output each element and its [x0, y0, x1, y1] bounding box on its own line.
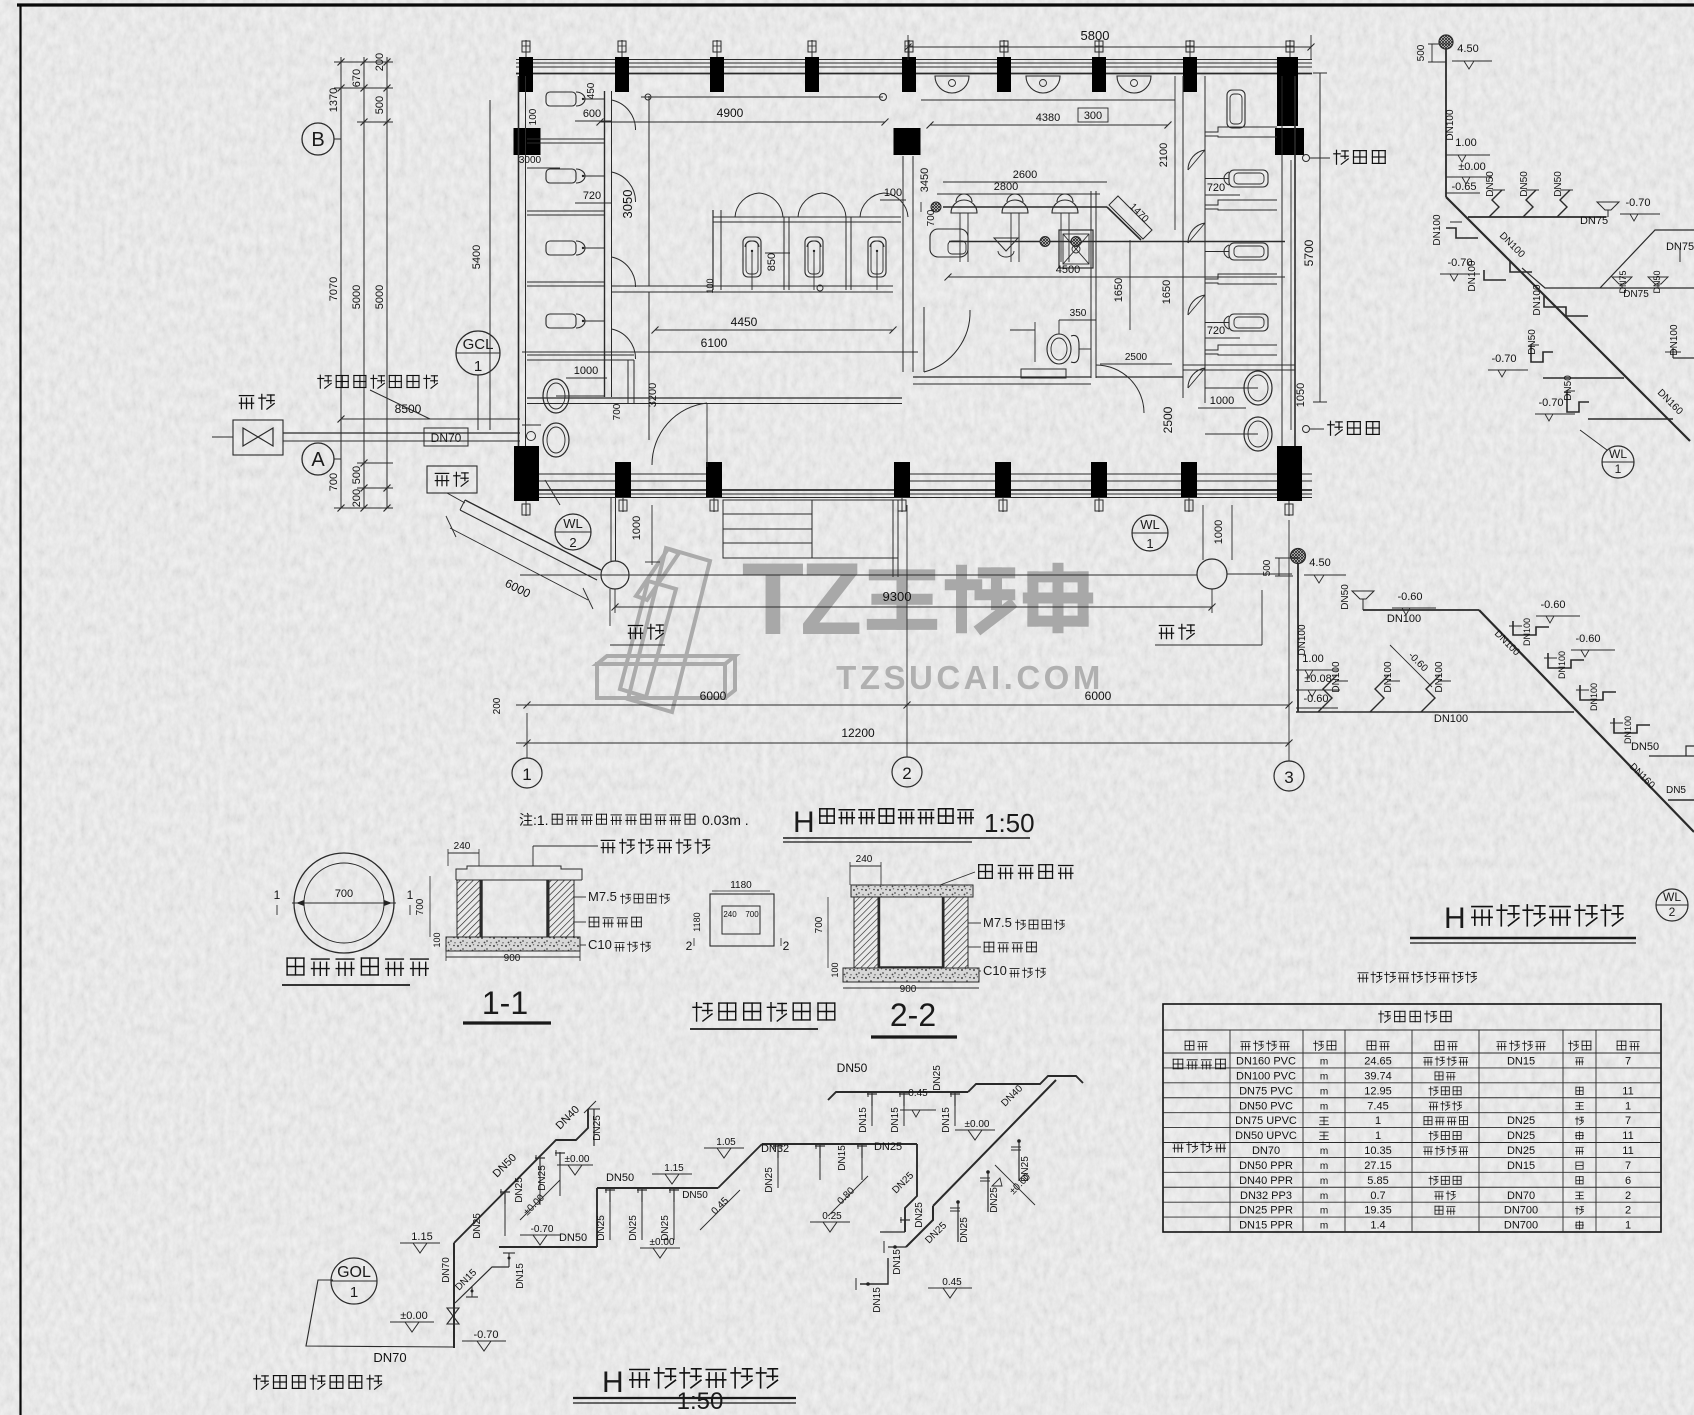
- WL1 stack: [1445, 49, 1447, 197]
- svg-text:1.4: 1.4: [1370, 1220, 1385, 1232]
- table header cells: [1185, 1041, 1194, 1050]
- left dimension lines: [340, 57, 342, 508]
- mid room bottom wall right half: [913, 376, 1091, 378]
- svg-text:DN15: DN15: [890, 1107, 901, 1133]
- lower DN15 steps: [906, 1206, 933, 1247]
- svg-text:m: m: [1320, 1191, 1328, 1202]
- WL2 vent cap: [1291, 549, 1306, 564]
- svg-text:6000: 6000: [1085, 689, 1112, 703]
- svg-text:DN100: DN100: [1557, 651, 1567, 679]
- svg-text:7: 7: [1625, 1056, 1631, 1068]
- svg-text:19.35: 19.35: [1364, 1205, 1392, 1217]
- WL1 DN50 step lower: [1531, 345, 1553, 362]
- svg-text:2: 2: [1669, 905, 1676, 919]
- svg-text:-0.70: -0.70: [1538, 397, 1563, 409]
- WL2 floor drain DN50: [1352, 591, 1374, 599]
- svg-text:4500: 4500: [1056, 264, 1080, 276]
- bottom corner columns: [514, 446, 539, 501]
- right room door arc to corridor: [1096, 365, 1144, 413]
- grid circle A: [302, 443, 334, 475]
- section 1-1 leader labels: [532, 846, 534, 866]
- svg-text:DN50: DN50: [837, 1061, 868, 1075]
- corner columns row B: [514, 128, 541, 155]
- svg-text:-0.60: -0.60: [1575, 633, 1600, 645]
- svg-text:DN15: DN15: [941, 1107, 952, 1133]
- svg-text:-0.70: -0.70: [473, 1329, 498, 1341]
- svg-text:3: 3: [1284, 768, 1293, 787]
- plan left exterior wall: [518, 76, 520, 497]
- svg-text:1: 1: [1375, 1115, 1381, 1127]
- svg-text:-0.60: -0.60: [1397, 591, 1422, 603]
- svg-text:DN32 PP3: DN32 PP3: [1240, 1190, 1292, 1202]
- svg-text:A: A: [311, 449, 325, 471]
- svg-text:DN15: DN15: [872, 1287, 883, 1313]
- WL2 ground line and traps: [1296, 711, 1574, 713]
- svg-text:1:50: 1:50: [677, 1388, 724, 1415]
- svg-text:DN50: DN50: [1519, 171, 1530, 197]
- grid circle 2: [892, 757, 922, 787]
- mid room sink counter pipe: [943, 206, 1107, 208]
- svg-text:GOL: GOL: [337, 1264, 371, 1281]
- dim 9300: [615, 606, 1212, 608]
- svg-text:H: H: [1444, 902, 1466, 935]
- svg-text:1-1: 1-1: [482, 985, 528, 1021]
- GOL diagonal DN50 rising: [454, 1109, 588, 1243]
- svg-text:1: 1: [274, 888, 281, 902]
- service pipe to building DN70: [283, 432, 520, 434]
- svg-text:2800: 2800: [994, 181, 1018, 193]
- WL1 main diagonal DN160: [1446, 197, 1690, 441]
- urinal fixture: [546, 92, 576, 106]
- GOL right section down DN25: [905, 1144, 917, 1232]
- svg-text:1: 1: [350, 1284, 358, 1301]
- svg-text:DN25: DN25: [764, 1167, 775, 1193]
- svg-text:DN50: DN50: [1563, 375, 1574, 401]
- svg-text:DN50: DN50: [1553, 171, 1564, 197]
- vertical line grid2 below plan: [906, 505, 908, 757]
- svg-text:m: m: [1320, 1161, 1328, 1172]
- svg-text:DN50: DN50: [606, 1172, 634, 1184]
- svg-text:±0.08: ±0.08: [1304, 673, 1331, 685]
- svg-text:11: 11: [1622, 1085, 1633, 1097]
- section 2-2 walls hatched: [854, 897, 878, 968]
- svg-text:-0.70: -0.70: [1491, 353, 1516, 365]
- funnel drain under basin: [994, 238, 1018, 251]
- svg-text:1: 1: [1375, 1130, 1381, 1142]
- svg-text:H: H: [602, 1366, 624, 1399]
- svg-text:1: 1: [1625, 1220, 1631, 1232]
- materials table caption: [1358, 973, 1368, 982]
- right stall partitions: [1205, 127, 1277, 132]
- WL2 title circle: [1656, 889, 1688, 921]
- GOL main riser: [453, 1243, 455, 1348]
- GOL branches on DN32: [777, 1144, 779, 1188]
- plan top exterior wall: [516, 59, 1312, 61]
- round well plan circles: [294, 853, 394, 953]
- svg-text:-0.60: -0.60: [1303, 693, 1328, 705]
- svg-text:0.7: 0.7: [1370, 1190, 1385, 1202]
- entrance door arc bottom: [652, 403, 707, 465]
- svg-text:7: 7: [1625, 1115, 1631, 1127]
- svg-text:1.00: 1.00: [1302, 653, 1323, 665]
- WL2 step3: [1580, 685, 1616, 700]
- section 1-1 walls hatched: [457, 880, 480, 939]
- WL2 main diagonal: [1479, 610, 1694, 832]
- svg-text:DN25: DN25: [1507, 1130, 1535, 1142]
- grid circle 3: [1274, 761, 1304, 791]
- svg-text:4380: 4380: [1036, 112, 1060, 124]
- drain pipe line mid room: [949, 241, 1285, 243]
- svg-text:C10: C10: [588, 937, 612, 952]
- svg-text:3000: 3000: [519, 155, 542, 166]
- WL2 step1: [1513, 621, 1549, 635]
- svg-text:±0.00: ±0.00: [1458, 161, 1485, 173]
- svg-text:0.03m .: 0.03m .: [702, 812, 749, 828]
- svg-text:DN15: DN15: [858, 1107, 869, 1133]
- svg-text:±0.00: ±0.00: [565, 1154, 590, 1165]
- svg-text:DN25: DN25: [1507, 1145, 1535, 1157]
- WL1 vent cap: [1439, 35, 1453, 49]
- svg-text:11: 11: [1622, 1130, 1633, 1142]
- svg-text:±0.00: ±0.00: [400, 1310, 427, 1322]
- svg-text:2: 2: [569, 535, 576, 550]
- GOL DN50 horizontal mid-low: [499, 1246, 597, 1248]
- svg-text:WL: WL: [1140, 517, 1160, 532]
- svg-text:350: 350: [1070, 308, 1087, 319]
- wash basins mid room: [951, 200, 977, 213]
- svg-text:24.65: 24.65: [1364, 1056, 1392, 1068]
- svg-text:DN25: DN25: [1507, 1115, 1535, 1127]
- svg-text:DN75: DN75: [1580, 215, 1608, 227]
- svg-text:DN25: DN25: [537, 1165, 548, 1191]
- manhole left: [601, 561, 629, 589]
- svg-text:B: B: [311, 129, 324, 151]
- WL1 DN75 branch with traps: [1468, 216, 1606, 218]
- svg-text:1180: 1180: [692, 912, 702, 931]
- right top tall column: [1277, 57, 1298, 126]
- svg-text:200: 200: [351, 489, 363, 507]
- plan top columns: [519, 57, 533, 92]
- section 1-1 cover slab: [456, 866, 582, 880]
- svg-text:C10: C10: [983, 963, 1007, 978]
- valve box with gate valve: [233, 420, 283, 455]
- section 2-2 plaster inner faces: [878, 897, 880, 968]
- svg-text:6000: 6000: [700, 689, 727, 703]
- svg-text:0.25: 0.25: [822, 1211, 842, 1222]
- right bottom squat pans: [1244, 371, 1272, 405]
- left stall door arcs: [612, 100, 636, 130]
- svg-text:1: 1: [1615, 462, 1622, 476]
- svg-text:-0.70: -0.70: [531, 1224, 554, 1235]
- mop basin with X: [1059, 230, 1093, 268]
- svg-text:DN100: DN100: [1432, 214, 1443, 246]
- svg-text:2: 2: [1625, 1205, 1631, 1217]
- svg-text:1000: 1000: [574, 365, 598, 377]
- svg-text:11: 11: [1622, 1145, 1633, 1157]
- svg-text:5800: 5800: [1081, 28, 1110, 43]
- svg-text:1.00: 1.00: [1455, 137, 1476, 149]
- svg-text:500: 500: [1416, 44, 1427, 61]
- svg-text:1: 1: [1146, 536, 1153, 551]
- svg-text:DN100: DN100: [1669, 324, 1680, 356]
- svg-text:WL: WL: [1609, 447, 1627, 461]
- svg-text:m: m: [1320, 1176, 1328, 1187]
- well label box bottom-left: [427, 466, 477, 493]
- WL1 steps DN100 on diagonal: [1510, 261, 1532, 272]
- watermark CJK chars: [872, 575, 931, 625]
- WL1 DN100 branch left: [1446, 228, 1478, 238]
- svg-text:H: H: [793, 806, 815, 839]
- svg-text:1180: 1180: [730, 880, 752, 891]
- svg-text:4450: 4450: [731, 315, 758, 329]
- svg-text:DN100: DN100: [1522, 618, 1532, 646]
- svg-text:100: 100: [705, 278, 715, 293]
- svg-text:DN25: DN25: [914, 1202, 925, 1228]
- svg-text:DN75 UPVC: DN75 UPVC: [1235, 1115, 1297, 1127]
- svg-text:DN15: DN15: [515, 1263, 526, 1289]
- dim 4900: [600, 121, 885, 123]
- svg-text:500: 500: [351, 466, 363, 484]
- svg-text:720: 720: [583, 190, 601, 202]
- svg-text:12.95: 12.95: [1364, 1085, 1392, 1097]
- svg-text:TZ: TZ: [742, 542, 860, 656]
- square well title: [693, 1003, 712, 1021]
- svg-text:10.35: 10.35: [1364, 1145, 1392, 1157]
- WL2 drain pipe to manhole: [610, 498, 612, 561]
- svg-text:DN100: DN100: [1467, 260, 1478, 292]
- dim 5800 top: [908, 46, 1311, 48]
- svg-text:M7.5: M7.5: [983, 915, 1012, 930]
- GOL diagonal to DN32: [718, 1144, 762, 1188]
- diagonal ramp symbol: [1109, 196, 1152, 239]
- left stall partitions and urinals: [527, 138, 605, 140]
- svg-text:DN70: DN70: [373, 1350, 406, 1365]
- urinal fixture: [546, 169, 576, 183]
- svg-text:m: m: [1320, 1101, 1328, 1112]
- svg-text:DN100: DN100: [1331, 661, 1342, 693]
- svg-text:DN50: DN50: [1527, 329, 1538, 355]
- WL2 upper horizontal DN100: [1363, 609, 1479, 611]
- svg-text:700: 700: [612, 403, 623, 420]
- svg-text:3050: 3050: [620, 190, 635, 219]
- svg-text:700: 700: [328, 473, 340, 491]
- svg-text:DN25: DN25: [959, 1217, 970, 1243]
- rain pipe right wall top: [1303, 155, 1310, 162]
- svg-text:DN70: DN70: [441, 1257, 452, 1283]
- svg-text:DN15: DN15: [892, 1249, 903, 1275]
- long dim lines 6000 6000: [516, 704, 1289, 706]
- lavatory sink fixture: [930, 229, 968, 257]
- svg-text:6: 6: [1625, 1175, 1631, 1187]
- svg-text:100: 100: [884, 187, 902, 199]
- svg-text:1370: 1370: [328, 88, 340, 112]
- svg-text:1000: 1000: [631, 516, 643, 540]
- svg-text:DN100: DN100: [1434, 661, 1445, 693]
- partition above squat room right: [1183, 369, 1295, 371]
- svg-text:DN160 PVC: DN160 PVC: [1236, 1056, 1296, 1068]
- svg-text:6100: 6100: [701, 336, 728, 350]
- svg-text:100: 100: [432, 932, 442, 947]
- WL2 stack: [1297, 563, 1299, 712]
- interior corridor verticals right room: [1182, 76, 1184, 398]
- svg-text:1.15: 1.15: [664, 1163, 684, 1174]
- svg-text:DN100: DN100: [1445, 109, 1456, 141]
- svg-text:DN50: DN50: [1631, 741, 1659, 753]
- svg-text:1650: 1650: [1113, 278, 1125, 302]
- right dim 5700: [1319, 73, 1321, 402]
- svg-text:39.74: 39.74: [1364, 1070, 1392, 1082]
- WL1 DN100 right branch: [1672, 348, 1674, 358]
- svg-text:700: 700: [415, 898, 426, 915]
- rain pipe right wall bottom: [1303, 426, 1310, 433]
- svg-text:200: 200: [374, 53, 386, 71]
- mid room left wall and door arc: [923, 307, 925, 372]
- svg-text:DN100: DN100: [1297, 624, 1308, 656]
- svg-text:900: 900: [504, 953, 521, 964]
- svg-text:670: 670: [351, 69, 363, 87]
- plan right exterior wall: [1281, 76, 1283, 497]
- svg-text:DN100: DN100: [1387, 613, 1421, 625]
- svg-text:700: 700: [745, 910, 759, 919]
- WL1 right upper branch: [1522, 268, 1694, 288]
- svg-text:2: 2: [686, 939, 693, 953]
- svg-text:5400: 5400: [471, 245, 483, 269]
- svg-text:DN75 PVC: DN75 PVC: [1239, 1085, 1293, 1097]
- svg-text:5.85: 5.85: [1367, 1175, 1388, 1187]
- svg-text:3450: 3450: [919, 168, 931, 192]
- svg-text:DN25: DN25: [596, 1215, 607, 1241]
- corridor wall horizontal left half: [527, 397, 902, 399]
- GOL first riser branches DN25: [504, 1192, 506, 1236]
- svg-text:DN25: DN25: [874, 1141, 902, 1153]
- svg-text:m: m: [1320, 1086, 1328, 1097]
- well label left below: [609, 589, 611, 626]
- GOL rise to DN50 upper: [596, 1188, 598, 1247]
- grid circle B: [302, 123, 334, 155]
- svg-text:DN15: DN15: [1507, 1056, 1535, 1068]
- svg-text:0.45: 0.45: [942, 1277, 962, 1288]
- svg-text:100: 100: [528, 108, 539, 125]
- svg-text:4.50: 4.50: [1309, 557, 1330, 569]
- GCL1 riser circle: [456, 331, 500, 375]
- svg-text:DN100 PVC: DN100 PVC: [1236, 1070, 1296, 1082]
- svg-text:GCL: GCL: [463, 336, 494, 353]
- svg-text:DN100: DN100: [1589, 683, 1599, 711]
- svg-text:DN50 PPR: DN50 PPR: [1239, 1160, 1293, 1172]
- svg-text:1:50: 1:50: [984, 808, 1035, 838]
- svg-text:DN25: DN25: [592, 1115, 603, 1141]
- sheet frame top border: [17, 3, 1694, 6]
- svg-text:2100: 2100: [1158, 143, 1170, 167]
- svg-text:DN70: DN70: [1507, 1190, 1535, 1202]
- section 1-1 base concrete: [446, 937, 580, 951]
- GOL three DN25 drops: [609, 1188, 611, 1240]
- urinal fixture: [546, 314, 576, 328]
- svg-text:720: 720: [1207, 325, 1225, 337]
- svg-text:DN25: DN25: [932, 1065, 943, 1091]
- materials table grid: [1163, 1004, 1661, 1232]
- svg-text:12200: 12200: [841, 726, 875, 740]
- svg-text:700: 700: [814, 916, 825, 933]
- section 1-1 plaster inner faces: [480, 880, 482, 940]
- WL2 DN50 branch: [1649, 755, 1694, 757]
- svg-text:DN100: DN100: [1383, 661, 1394, 693]
- svg-text:500: 500: [1262, 559, 1273, 576]
- svg-text:1: 1: [522, 765, 531, 784]
- svg-text:DN32: DN32: [761, 1143, 789, 1155]
- section 2-2 leader labels: [940, 872, 975, 885]
- svg-text:1: 1: [474, 358, 482, 375]
- stairs and porch at entrance: [723, 500, 898, 558]
- svg-text:200: 200: [492, 697, 503, 714]
- plan bottom exterior wall: [516, 489, 1312, 491]
- svg-text:WL: WL: [563, 516, 583, 531]
- svg-text:2: 2: [1625, 1190, 1631, 1202]
- diagonal sewer band to manhole: [465, 500, 601, 570]
- svg-text:M7.5: M7.5: [588, 889, 617, 904]
- right urinal fixtures: [1229, 170, 1268, 187]
- round well title: [287, 958, 304, 975]
- svg-text:720: 720: [1207, 182, 1225, 194]
- svg-text:600: 600: [583, 108, 601, 120]
- manhole right: [1197, 559, 1227, 589]
- sheet frame left border: [19, 4, 21, 1415]
- svg-text:1: 1: [407, 888, 414, 902]
- svg-text:WL: WL: [1663, 890, 1681, 904]
- svg-text:300: 300: [1084, 110, 1102, 122]
- right stall door arcs: [1188, 150, 1205, 170]
- svg-text:-0.60: -0.60: [1540, 599, 1565, 611]
- svg-text:2: 2: [783, 939, 790, 953]
- svg-text:m: m: [1320, 1071, 1328, 1082]
- svg-text:DN25: DN25: [472, 1213, 483, 1239]
- urinal fixture: [546, 241, 576, 255]
- svg-text:m: m: [1320, 1146, 1328, 1157]
- svg-text:±0.00: ±0.00: [650, 1237, 675, 1248]
- svg-text:DN100: DN100: [1532, 284, 1543, 316]
- svg-text:240: 240: [723, 910, 737, 919]
- table section labels: [1173, 1059, 1183, 1069]
- niche on mid room bottom wall: [1021, 369, 1066, 378]
- table title row: [1379, 1011, 1391, 1022]
- svg-text:DN50: DN50: [559, 1232, 587, 1244]
- mid room right wall: [1090, 191, 1092, 378]
- svg-text:DN70: DN70: [1252, 1145, 1280, 1157]
- svg-text:1000: 1000: [1210, 395, 1234, 407]
- central stall block walls: [712, 210, 714, 290]
- wash basins on top wall: [935, 76, 969, 93]
- svg-text:2600: 2600: [1013, 169, 1037, 181]
- svg-text:DN5: DN5: [1666, 785, 1686, 796]
- svg-text:DN25 PPR: DN25 PPR: [1239, 1205, 1293, 1217]
- svg-text:2-2: 2-2: [890, 997, 936, 1033]
- svg-text:DN15: DN15: [1507, 1160, 1535, 1172]
- WC toilet: [1047, 334, 1071, 364]
- GOL taps on top DN50: [871, 1092, 873, 1126]
- central stall urinal fixtures: [743, 237, 761, 277]
- left room floor drain: [527, 432, 536, 441]
- counter line below basins: [921, 99, 1175, 101]
- svg-text:1.15: 1.15: [411, 1231, 432, 1243]
- svg-text:DN50: DN50: [1485, 171, 1496, 197]
- watermark logo numeral: [597, 548, 735, 712]
- svg-text:240: 240: [454, 841, 471, 852]
- GOL riser circle: [331, 1258, 377, 1304]
- WL2 step2: [1548, 653, 1584, 668]
- WL1 floor drain funnel: [1597, 202, 1619, 210]
- svg-text:±0.00: ±0.00: [965, 1119, 990, 1130]
- svg-text:7.45: 7.45: [1367, 1100, 1388, 1112]
